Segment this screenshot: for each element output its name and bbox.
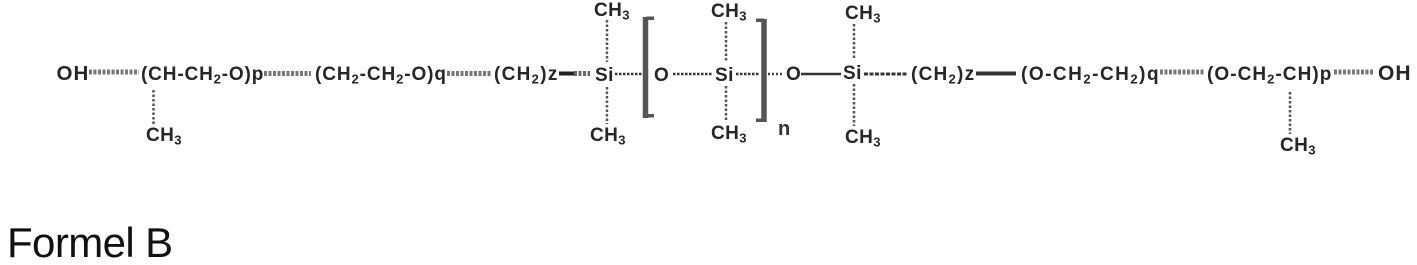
svg-text:OH: OH [1378, 62, 1412, 85]
svg-text:(CH-CH2-O)p: (CH-CH2-O)p [141, 64, 264, 87]
svg-text:OH: OH [57, 62, 90, 85]
svg-text:n: n [778, 118, 790, 140]
svg-text:Si: Si [715, 65, 734, 86]
svg-text:O: O [654, 65, 669, 86]
svg-text:Formel B: Formel B [7, 219, 173, 260]
svg-text:O: O [786, 64, 801, 85]
svg-text:(CH2)z: (CH2)z [911, 64, 975, 87]
svg-text:Si: Si [843, 63, 862, 84]
svg-text:(CH2-CH2-O)q: (CH2-CH2-O)q [315, 64, 447, 87]
svg-text:Si: Si [595, 65, 614, 86]
svg-text:(CH2)z: (CH2)z [494, 64, 559, 87]
